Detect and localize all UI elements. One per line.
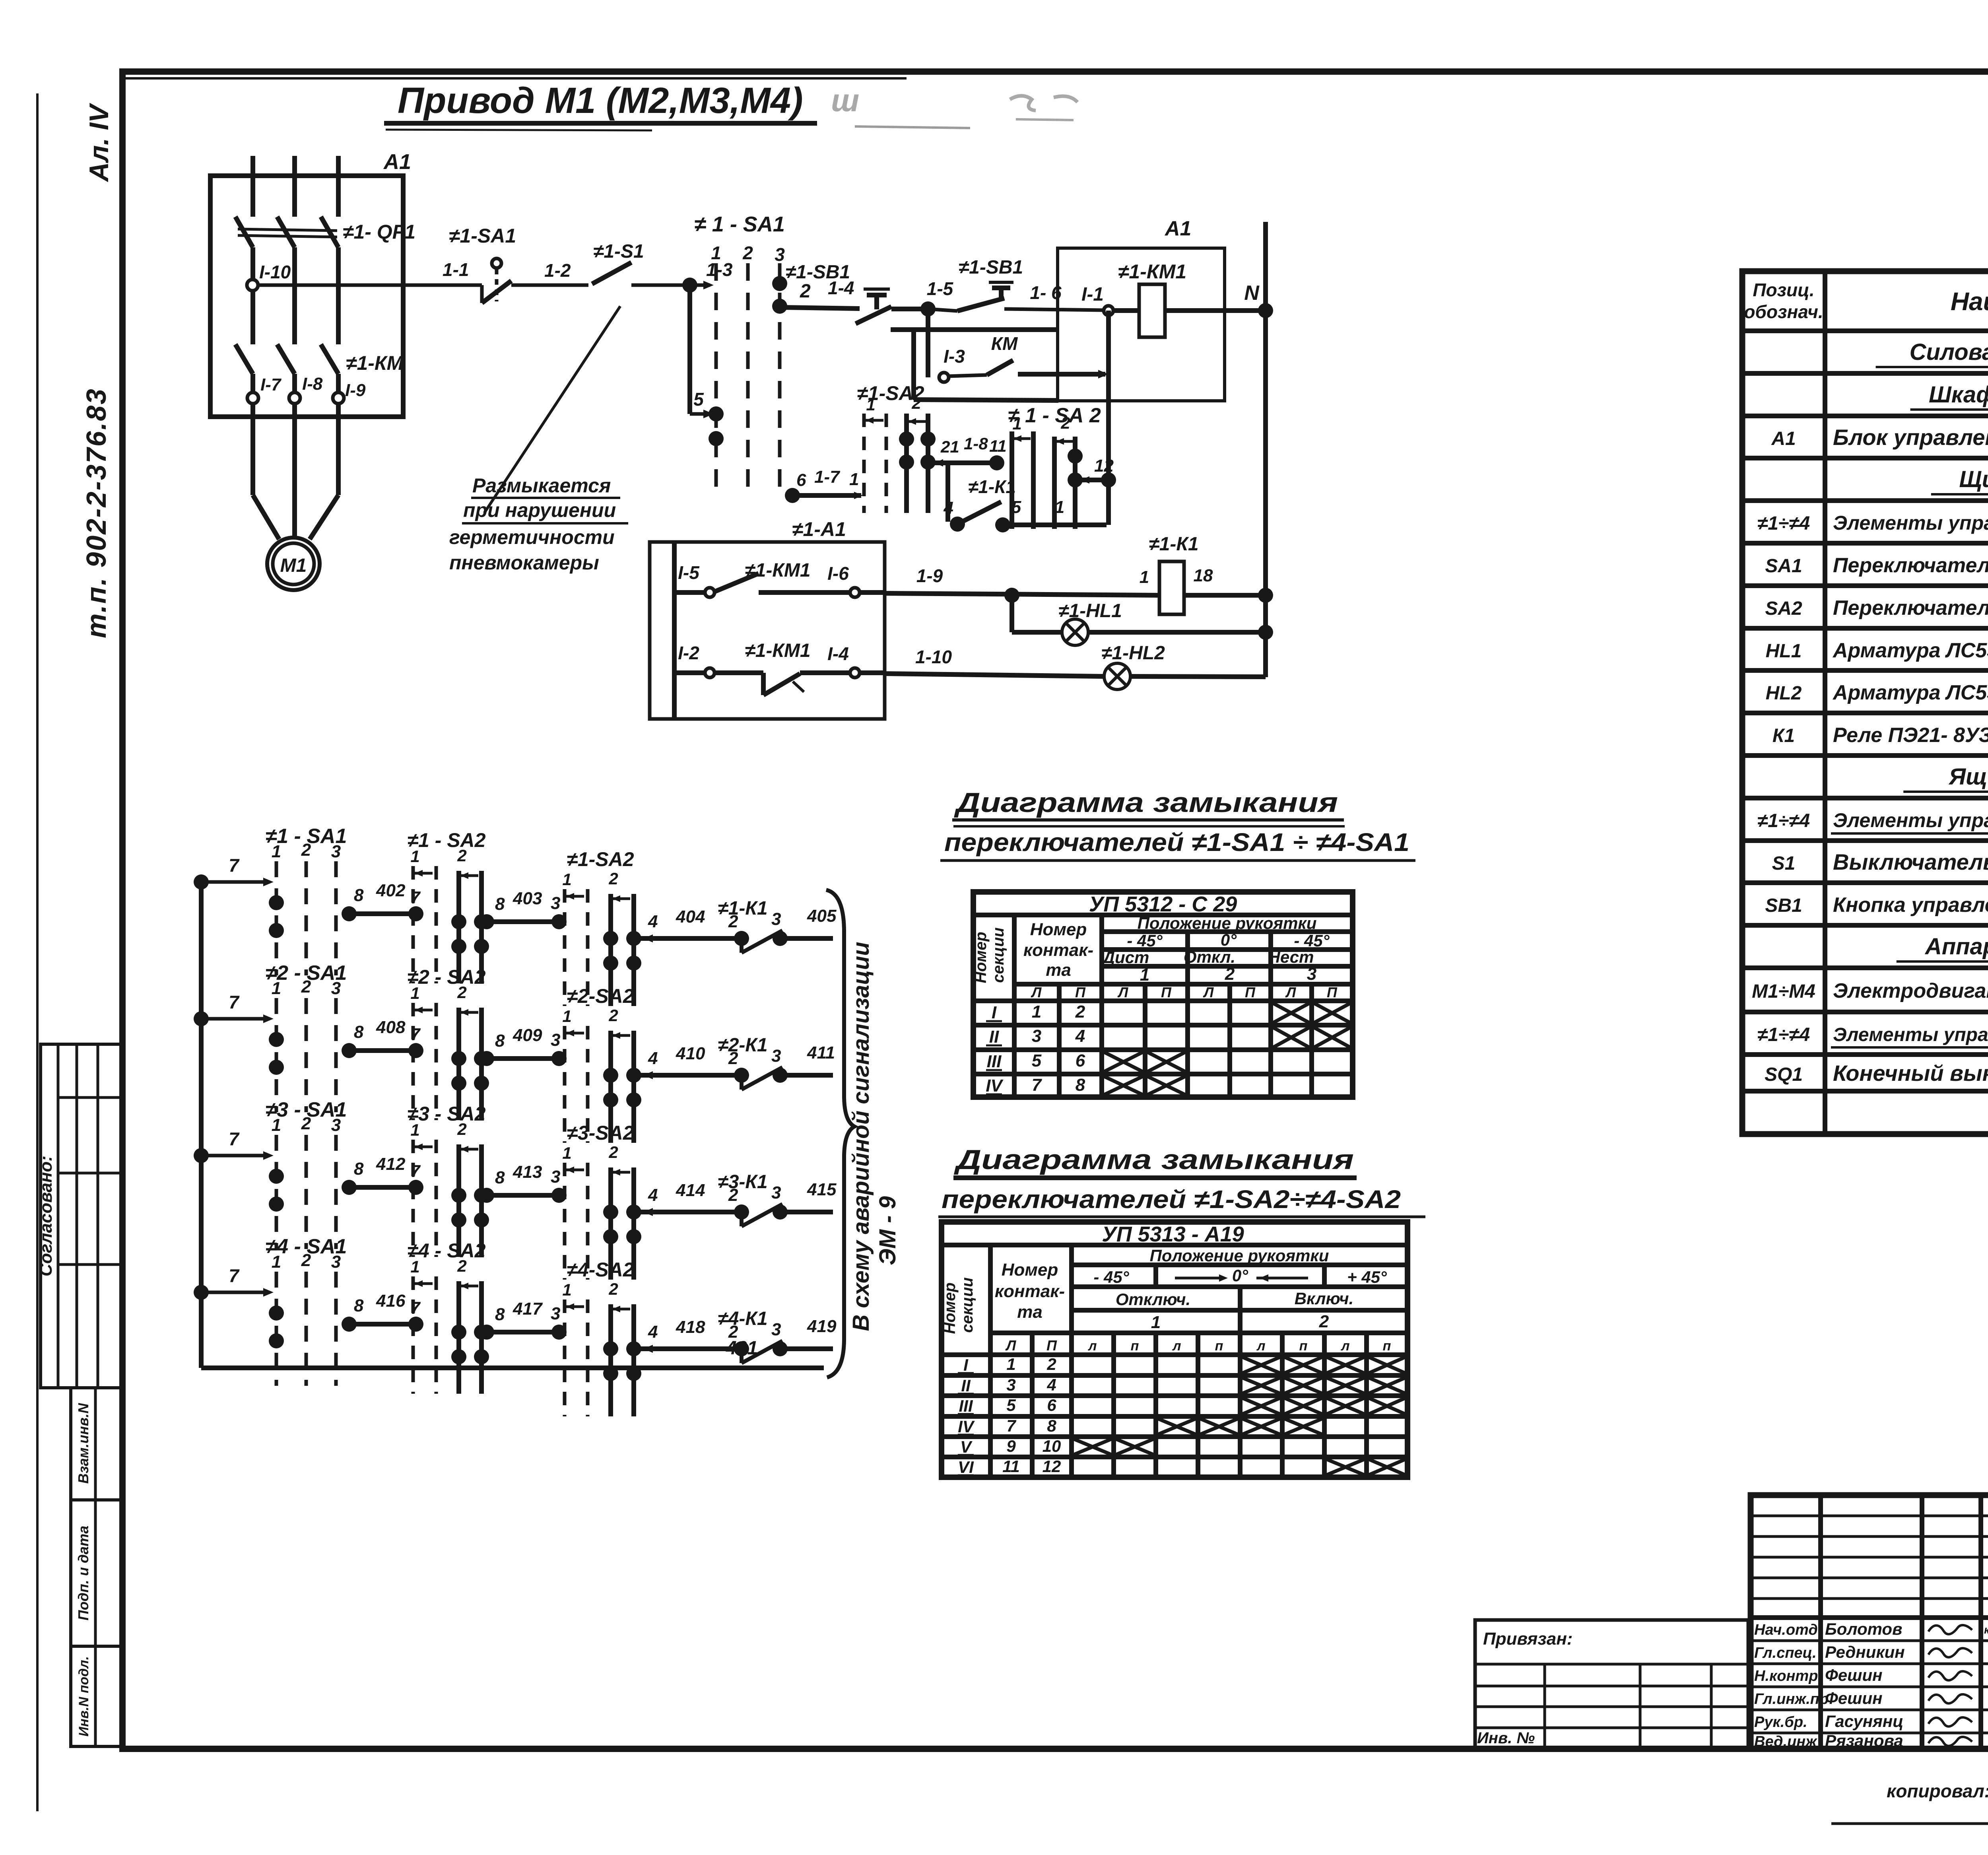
svg-text:0°: 0° [1232, 1266, 1248, 1285]
svg-text:3: 3 [1032, 1026, 1041, 1046]
svg-text:1: 1 [1140, 567, 1149, 587]
contact ≠1-KM1 (NC) row [674, 670, 705, 675]
brace to alarm circuit [826, 890, 854, 1377]
svg-text:Н.контр: Н.контр [1754, 1668, 1818, 1684]
wire 6 1-7 1 [790, 493, 861, 498]
contacts ≠4-SA1 [269, 1305, 284, 1321]
svg-text:≠1-SВ1: ≠1-SВ1 [959, 257, 1023, 278]
svg-text:М1: М1 [280, 555, 307, 576]
svg-text:контак-: контак- [995, 1282, 1065, 1301]
contacts ≠1-SA2 A [451, 914, 466, 929]
svg-text:П: П [1161, 984, 1172, 1000]
contacts ≠2-SA2 B [603, 1068, 618, 1083]
svg-text:- 45°: - 45° [1127, 931, 1163, 950]
SA2-B section lines [1010, 431, 1014, 529]
svg-text:Л: Л [1031, 984, 1042, 1000]
svg-text:4: 4 [944, 498, 953, 518]
svg-text:≠1-SВ1: ≠1-SВ1 [786, 262, 850, 283]
svg-text:Вед.инж: Вед.инж [1754, 1733, 1817, 1750]
wire 403 [484, 919, 561, 924]
wire 413 [484, 1193, 561, 1198]
svg-text:п: п [1299, 1338, 1308, 1354]
svg-text:т.п. 902-2-376.83: т.п. 902-2-376.83 [81, 388, 112, 638]
svg-text:4: 4 [1075, 1026, 1085, 1046]
svg-text:1-10: 1-10 [915, 647, 952, 667]
svg-text:л: л [1256, 1338, 1265, 1354]
svg-text:18: 18 [1194, 566, 1213, 585]
motor M1 [267, 538, 320, 590]
svg-text:Рязанова: Рязанова [1825, 1731, 1903, 1750]
svg-text:контак-: контак- [1023, 940, 1093, 960]
svg-text:SА1: SА1 [1765, 556, 1802, 577]
svg-text:Аппаратура по месту: Аппаратура по месту [1924, 934, 1988, 960]
svg-text:1: 1 [272, 979, 281, 998]
contacts ≠4-SA2 B [603, 1341, 618, 1356]
svg-text:9: 9 [1006, 1437, 1016, 1455]
svg-text:4: 4 [648, 1185, 658, 1205]
svg-text:3: 3 [1006, 1375, 1015, 1394]
svg-text:418: 418 [676, 1317, 705, 1337]
svg-text:УП 5313 - А19: УП 5313 - А19 [1102, 1222, 1244, 1246]
svg-text:М1÷М4: М1÷М4 [1752, 981, 1815, 1002]
svg-text:3: 3 [551, 1304, 560, 1323]
svg-text:II: II [961, 1376, 971, 1395]
svg-text:Наименование: Наименование [1951, 287, 1988, 316]
svg-text:Диаграмма замыкания: Диаграмма замыкания [954, 787, 1338, 818]
svg-text:0°: 0° [1221, 930, 1237, 949]
svg-text:Нач.отд: Нач.отд [1754, 1622, 1818, 1638]
svg-text:1: 1 [1151, 1313, 1161, 1332]
svg-text:≠1-К1: ≠1-К1 [718, 898, 767, 919]
svg-text:3: 3 [771, 1320, 781, 1339]
svg-text:- 45°: - 45° [1294, 931, 1330, 950]
svg-text:413: 413 [513, 1162, 542, 1182]
svg-text:7: 7 [229, 1129, 240, 1149]
svg-text:Элементы управления эл/дв. М: Элементы управления эл/дв. М1... М4 [1833, 1024, 1988, 1045]
svg-text:2: 2 [1075, 1002, 1085, 1022]
revision rows [1751, 1515, 1988, 1517]
contacts on section 1 [709, 406, 724, 422]
wire 1-5 node [891, 307, 928, 311]
svg-text:8: 8 [354, 886, 364, 905]
svg-text:≠1÷≠4: ≠1÷≠4 [1757, 513, 1810, 534]
svg-text:2: 2 [608, 1143, 618, 1162]
svg-text:л: л [1172, 1338, 1181, 1354]
stamp box Vzam.inv.N [71, 1388, 121, 1500]
svg-text:VI: VI [958, 1458, 974, 1476]
svg-text:1: 1 [272, 1115, 281, 1135]
svg-text:В схему аварийной сигнализации: В схему аварийной сигнализации [848, 942, 874, 1331]
table UP5313-A19 crosses [1242, 1357, 1280, 1373]
svg-text:412: 412 [376, 1154, 406, 1174]
svg-text:1: 1 [410, 984, 419, 1002]
svg-text:Силовая сборка РТ30 - 73: Силовая сборка РТ30 - 73 [1910, 339, 1988, 365]
svg-text:1: 1 [849, 470, 859, 489]
svg-text:5: 5 [1032, 1051, 1042, 1070]
svg-text:переключателей ≠1-SА2÷≠4-SА2: переключателей ≠1-SА2÷≠4-SА2 [942, 1185, 1401, 1214]
svg-text:Положение рукоятки: Положение рукоятки [1138, 914, 1317, 932]
svg-text:Конечный выключатель: Конечный выключатель [1833, 1061, 1988, 1086]
svg-text:Щит оператора: Щит оператора [1959, 466, 1988, 492]
wire 2 / 1-4 [782, 307, 860, 309]
svg-text:Размыкается: Размыкается [472, 474, 611, 497]
svg-text:Переключатель УП5312-С29УЗ ре: Переключатель УП5312-С29УЗ рев. [1833, 554, 1988, 577]
svg-text:402: 402 [376, 881, 406, 900]
SA2-A section lines [862, 414, 866, 513]
phase feeders top [250, 156, 255, 217]
svg-text:2: 2 [1060, 414, 1070, 432]
svg-text:8: 8 [354, 1159, 364, 1179]
svg-text:1-1: 1-1 [443, 259, 469, 280]
svg-text:11: 11 [989, 437, 1007, 455]
svg-text:1: 1 [272, 842, 281, 861]
svg-text:≠3-SА2: ≠3-SА2 [567, 1122, 634, 1144]
svg-text:409: 409 [513, 1026, 542, 1045]
bus drop to contact 5 [687, 285, 692, 414]
svg-text:1-5: 1-5 [927, 278, 954, 299]
svg-text:К1: К1 [1773, 725, 1795, 746]
wire 21 1-8 11 [932, 460, 999, 465]
svg-text:≠4-К1: ≠4-К1 [718, 1308, 767, 1329]
svg-text:п: п [1215, 1338, 1223, 1354]
SA2-A contacts [899, 431, 914, 447]
svg-text:7: 7 [229, 992, 240, 1012]
svg-text:8: 8 [354, 1022, 364, 1042]
svg-text:Дист: Дист [1102, 948, 1149, 967]
svg-text:А1: А1 [1164, 217, 1191, 240]
svg-text:Ящик 1Я (2Я ... 4Я): Ящик 1Я (2Я ... 4Я) [1948, 764, 1988, 790]
svg-text:секции: секции [990, 927, 1007, 983]
svg-text:3: 3 [331, 979, 341, 998]
svg-text:≠1÷≠4: ≠1÷≠4 [1757, 1024, 1810, 1045]
svg-text:2: 2 [457, 846, 466, 865]
svg-text:I-1: I-1 [1081, 284, 1104, 305]
parts table grid [1742, 271, 1988, 1134]
aux contact KM branch [926, 309, 930, 377]
svg-text:I-9: I-9 [345, 381, 366, 400]
wire 401 [201, 1366, 824, 1370]
svg-text:Блок управления 12: Блок управления 12 [1833, 425, 1988, 450]
svg-text:та: та [1017, 1302, 1043, 1322]
svg-text:копировал:: копировал: [1887, 1781, 1988, 1801]
svg-text:УП 5312 - С 29: УП 5312 - С 29 [1089, 892, 1237, 916]
svg-text:герметичности: герметичности [449, 526, 615, 548]
contacts ≠3-SA2 A [451, 1188, 466, 1203]
signal bus vertical [199, 882, 204, 1368]
svg-text:Номер: Номер [1030, 920, 1087, 939]
svg-text:Номер: Номер [941, 1282, 959, 1334]
svg-text:2: 2 [1046, 1355, 1056, 1373]
note leader line [484, 306, 620, 513]
svg-text:2: 2 [457, 1120, 466, 1138]
svg-text:к1:8-г: к1:8-г [1984, 1624, 1988, 1636]
contact ≠3-K1 output [640, 1210, 742, 1214]
contacts on section 3 [772, 276, 787, 291]
wire 1-3 [631, 284, 688, 287]
svg-text:419: 419 [807, 1317, 837, 1336]
svg-text:при нарушении: при нарушении [463, 499, 616, 521]
wire 1-2 [511, 284, 588, 287]
svg-text:Номер: Номер [1002, 1260, 1058, 1280]
svg-text:I-5: I-5 [678, 562, 700, 583]
svg-text:переключателей ≠1-SА1 ÷ ≠4-SА1: переключателей ≠1-SА1 ÷ ≠4-SА1 [944, 828, 1409, 857]
svg-text:1-8: 1-8 [964, 434, 988, 453]
table UP5312-C29 grid [973, 892, 1353, 1097]
wire 409 [484, 1056, 561, 1061]
svg-text:V: V [960, 1437, 973, 1456]
svg-text:I-8: I-8 [302, 374, 323, 394]
svg-text:Кнопка управления ПКЕ212 - 2: Кнопка управления ПКЕ212 - 2 [1833, 894, 1988, 917]
breaker trip bar [238, 229, 337, 231]
svg-text:411: 411 [807, 1043, 835, 1062]
svg-text:I-3: I-3 [944, 346, 965, 367]
wire 1-9 [860, 590, 885, 595]
junction node on wire 1-3 [682, 278, 697, 293]
terminals I-7 I-8 I-9 [247, 392, 258, 404]
svg-text:НL2: НL2 [1766, 683, 1802, 704]
svg-text:1: 1 [1140, 965, 1149, 985]
contacts ≠1-SA2 B [603, 931, 618, 946]
svg-text:SQ1: SQ1 [1765, 1064, 1803, 1085]
svg-text:Инв.N подл.: Инв.N подл. [76, 1656, 91, 1737]
svg-text:≠ 1 - SА 2: ≠ 1 - SА 2 [1008, 404, 1101, 427]
wire 416 [347, 1322, 418, 1327]
svg-text:7: 7 [229, 1265, 240, 1286]
svg-text:8: 8 [1047, 1416, 1056, 1435]
contact ≠1-KM1 (NO) row [674, 590, 705, 595]
svg-text:Привод М1 (М2,М3,М4): Привод М1 (М2,М3,М4) [398, 80, 803, 121]
svg-text:5: 5 [693, 389, 704, 410]
svg-text:Номер: Номер [972, 932, 990, 983]
svg-text:Позиц.: Позиц. [1753, 280, 1814, 300]
svg-text:416: 416 [376, 1291, 406, 1311]
svg-text:2: 2 [457, 983, 466, 1002]
svg-text:2: 2 [742, 243, 753, 263]
svg-text:I-10: I-10 [259, 262, 291, 282]
wire bypass SB1 [891, 327, 1056, 332]
svg-text:4: 4 [648, 912, 658, 931]
svg-text:л: л [1340, 1338, 1349, 1354]
svg-text:401: 401 [726, 1338, 758, 1359]
svg-text:обознач.: обознач. [1744, 301, 1823, 322]
svg-text:Арматура ЛС53 v 220В цвет кр: Арматура ЛС53 v 220В цвет красн. [1832, 639, 1988, 662]
svg-text:П: П [1245, 984, 1256, 1000]
stamp box Soglasovano [41, 1044, 121, 1388]
svg-text:I-6: I-6 [827, 563, 849, 584]
svg-text:3: 3 [771, 909, 781, 929]
svg-text:А1: А1 [1771, 428, 1796, 449]
wire 402 [347, 911, 418, 916]
svg-text:Элементы управления эл/дв. М1: Элементы управления эл/дв. М1... М4 [1833, 512, 1988, 534]
svg-text:≠1-КМ1: ≠1-КМ1 [1118, 260, 1186, 283]
contact ≠1-K1 (self hold) [945, 463, 950, 522]
svg-text:≠1-КМ1: ≠1-КМ1 [745, 640, 810, 661]
svg-text:≠1-НL1: ≠1-НL1 [1058, 600, 1122, 622]
box A1 (control unit) [1058, 248, 1225, 401]
svg-text:Шкаф присоединений: Шкаф присоединений [1929, 382, 1988, 408]
svg-text:2: 2 [608, 1280, 618, 1298]
svg-text:Откл.: Откл. [1184, 948, 1235, 966]
svg-text:Выключатель ТВ1- 1: Выключатель ТВ1- 1 [1833, 849, 1988, 874]
wire 12 [1078, 478, 1107, 482]
svg-text:≠1-НL2: ≠1-НL2 [1101, 643, 1165, 664]
contactor ≠1-KM poles [235, 344, 253, 374]
svg-text:III: III [987, 1052, 1002, 1071]
contacts ≠2-SA1 [269, 1032, 284, 1047]
svg-text:2: 2 [1225, 964, 1235, 984]
svg-text:SА2: SА2 [1765, 598, 1802, 619]
svg-text:Арматура ЛС53 v 220В цвет зе: Арматура ЛС53 v 220В цвет зелен. [1832, 681, 1988, 704]
svg-text:Переключатель УП5313-А19УЗ ре: Переключатель УП5313-А19УЗ рев. [1833, 596, 1988, 620]
wire 1-10 [860, 670, 885, 675]
svg-text:ш: ш [831, 83, 859, 118]
svg-text:Рук.бр.: Рук.бр. [1754, 1714, 1807, 1731]
svg-text:Привязан:: Привязан: [1483, 1629, 1573, 1649]
svg-text:415: 415 [807, 1180, 837, 1199]
contacts ≠1-SA1 [269, 895, 284, 910]
svg-text:≠1-КМ1: ≠1-КМ1 [745, 560, 810, 581]
contacts ≠4-SA2 A [451, 1325, 466, 1340]
svg-text:1: 1 [410, 847, 419, 866]
svg-text:I: I [992, 1003, 997, 1022]
svg-text:414: 414 [676, 1181, 705, 1200]
svg-text:Ал. IV: Ал. IV [84, 103, 114, 183]
svg-text:1-7: 1-7 [814, 467, 841, 487]
svg-text:I: I [963, 1356, 969, 1374]
svg-text:3: 3 [331, 1115, 341, 1135]
SA2-B contacts [1068, 449, 1083, 464]
svg-text:Элементы управления эл/дв. М1.: Элементы управления эл/дв. М1... М4 [1833, 809, 1988, 831]
svg-text:секции: секции [959, 1277, 976, 1332]
svg-text:1: 1 [410, 1121, 419, 1139]
svg-text:Отключ.: Отключ. [1116, 1290, 1190, 1309]
svg-text:≠1-S1: ≠1-S1 [593, 241, 644, 262]
svg-text:3: 3 [771, 1183, 781, 1202]
svg-text:3: 3 [551, 894, 560, 913]
svg-text:≠1-К1: ≠1-К1 [1149, 534, 1198, 555]
svg-text:Л: Л [1117, 984, 1129, 1000]
svg-text:≠1÷≠4: ≠1÷≠4 [1757, 810, 1810, 831]
svg-text:Л: Л [1285, 984, 1297, 1000]
svg-text:3: 3 [331, 1252, 341, 1272]
svg-text:410: 410 [676, 1044, 705, 1063]
svg-text:≠2-К1: ≠2-К1 [718, 1035, 767, 1056]
svg-text:8: 8 [354, 1296, 364, 1315]
svg-text:1: 1 [410, 1257, 419, 1276]
svg-text:3: 3 [551, 1030, 560, 1050]
svg-text:6: 6 [1076, 1051, 1085, 1070]
svg-text:2: 2 [800, 281, 811, 302]
breaker ≠1-QF1 poles [235, 217, 253, 247]
svg-text:1: 1 [1006, 1355, 1015, 1373]
svg-text:ЭМ - 9: ЭМ - 9 [875, 1196, 901, 1265]
svg-text:≠1-КМ: ≠1-КМ [346, 352, 404, 374]
terminal I-10 [247, 280, 258, 291]
bus from I-1 down [1106, 311, 1111, 525]
svg-text:7: 7 [229, 855, 240, 876]
svg-text:≠2-SА2: ≠2-SА2 [567, 985, 634, 1007]
svg-text:1-2: 1-2 [544, 260, 571, 281]
svg-text:1: 1 [711, 243, 721, 263]
motor feeder wires [250, 403, 255, 495]
bus tap row 4 [194, 1285, 209, 1300]
sheet edge bottom line [1831, 1822, 1988, 1825]
svg-text:Фешин: Фешин [1825, 1689, 1883, 1707]
privyazan box [1475, 1620, 1748, 1749]
svg-text:7: 7 [1032, 1075, 1043, 1095]
bus tap row 3 [194, 1148, 209, 1163]
svg-text:≠3-К1: ≠3-К1 [718, 1171, 767, 1193]
svg-text:5: 5 [1006, 1396, 1016, 1414]
box ≠1-A1 [650, 542, 885, 719]
wire 408 [347, 1048, 418, 1053]
svg-text:≠ 1 - SА1: ≠ 1 - SА1 [694, 212, 785, 236]
svg-text:11: 11 [1002, 1457, 1020, 1476]
svg-text:п: п [1131, 1338, 1139, 1354]
svg-text:4: 4 [648, 1322, 658, 1342]
svg-text:10: 10 [1043, 1437, 1061, 1455]
svg-text:1: 1 [562, 1144, 571, 1162]
svg-text:≠1-К1: ≠1-К1 [968, 476, 1016, 497]
svg-text:≠4-SА2: ≠4-SА2 [567, 1259, 634, 1281]
svg-text:Редникин: Редникин [1825, 1643, 1905, 1661]
svg-text:2: 2 [911, 394, 921, 412]
svg-text:А1: А1 [383, 150, 411, 174]
svg-text:404: 404 [676, 907, 705, 927]
svg-text:Положение рукоятки: Положение рукоятки [1150, 1246, 1329, 1265]
svg-text:2: 2 [301, 977, 311, 996]
bus tap row 2 [194, 1011, 209, 1026]
table UP5312-C29 crosses [1273, 1003, 1309, 1023]
svg-text:3: 3 [331, 842, 341, 861]
svg-text:12: 12 [1043, 1457, 1061, 1476]
svg-text:та: та [1046, 960, 1071, 980]
svg-text:пневмокамеры: пневмокамеры [449, 552, 599, 574]
svg-text:408: 408 [376, 1018, 406, 1037]
svg-text:405: 405 [807, 906, 837, 926]
svg-text:2: 2 [457, 1257, 466, 1275]
svg-text:4: 4 [1046, 1375, 1056, 1394]
svg-text:Нест: Нест [1268, 948, 1314, 966]
svg-text:Включ.: Включ. [1295, 1289, 1354, 1308]
svg-text:8: 8 [495, 1031, 505, 1051]
wire 412 [347, 1185, 418, 1190]
svg-text:2: 2 [301, 840, 311, 860]
svg-text:Л: Л [1203, 984, 1214, 1000]
contact ≠2-K1 output [640, 1073, 742, 1078]
svg-text:3: 3 [775, 244, 785, 265]
svg-text:≠1-А1: ≠1-А1 [792, 518, 846, 540]
bus N vertical [1263, 222, 1268, 677]
svg-text:Согласовано:: Согласовано: [36, 1156, 56, 1276]
stamp box Podp. i data [71, 1500, 121, 1646]
svg-text:7: 7 [1006, 1416, 1016, 1435]
svg-text:I-2: I-2 [678, 643, 699, 663]
wire 5 1 [999, 523, 1107, 527]
svg-text:НL1: НL1 [1766, 641, 1802, 662]
svg-text:403: 403 [513, 889, 542, 908]
svg-text:≠1-SA1: ≠1-SA1 [449, 225, 516, 247]
svg-text:Фешин: Фешин [1825, 1666, 1883, 1684]
svg-text:Инв. №: Инв. № [1477, 1729, 1535, 1747]
contacts ≠2-SA2 A [451, 1051, 466, 1066]
svg-text:П: П [1046, 1337, 1057, 1354]
svg-text:Гл.инж.пр: Гл.инж.пр [1754, 1691, 1829, 1707]
svg-text:2: 2 [301, 1114, 311, 1133]
svg-text:≠1- QF1: ≠1- QF1 [343, 221, 415, 243]
bus tap row 1 [194, 874, 209, 890]
svg-text:Взам.инв.N: Взам.инв.N [75, 1403, 91, 1484]
